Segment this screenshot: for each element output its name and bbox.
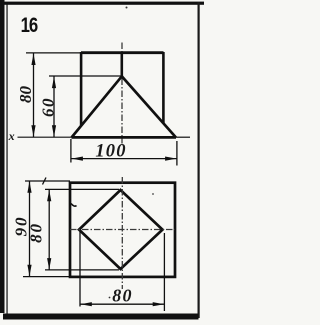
dim line 100 — [71, 158, 177, 160]
dim line 80 bottom — [80, 303, 165, 305]
extension line 80 plan bottom — [45, 269, 119, 271]
base line — [72, 136, 177, 139]
arrow 80 plan bottom — [47, 258, 51, 270]
arrow 90 top — [27, 181, 31, 193]
arrow 80 bottom left — [80, 302, 92, 306]
dim line 60 front — [53, 76, 55, 137]
plan rectangle — [70, 183, 175, 277]
plan horizontal centerline — [70, 229, 175, 231]
prism front middle edge — [121, 53, 124, 78]
dim line 80 front — [33, 53, 35, 137]
page frame bottom bar — [3, 314, 199, 320]
prism front right edge — [162, 52, 165, 124]
page frame left bar — [0, 0, 5, 313]
extension line 80 plan top — [45, 188, 119, 190]
extension line 100 right — [176, 141, 178, 166]
extension line 90 bottom — [23, 276, 70, 278]
arrow 80 front top — [31, 54, 35, 66]
svg-text:100: 100 — [95, 142, 126, 162]
extension line 80 bottom right — [163, 233, 165, 311]
speck dot before 80 — [109, 297, 111, 299]
extension line 100 left — [70, 139, 72, 163]
centerline front (dash-dot) — [121, 43, 123, 144]
arrow 100 right — [165, 157, 177, 161]
page frame inner thin line — [6, 2, 7, 314]
dim line 90 — [29, 181, 31, 277]
arrow 80 bottom right — [153, 302, 165, 306]
page frame top bar — [4, 2, 204, 5]
plan vertical centerline — [121, 177, 123, 289]
svg-text:80: 80 — [16, 86, 35, 104]
arrow 60 top — [52, 77, 56, 89]
arrow 90 bottom — [27, 265, 31, 277]
extension line 80 bottom left — [79, 231, 81, 307]
arrowheads — [27, 54, 176, 307]
dim line 80 plan — [48, 189, 50, 270]
speck dot plan — [152, 193, 154, 195]
svg-text:60: 60 — [39, 97, 58, 117]
x axis line right — [176, 136, 190, 138]
small hook mark on plan left edge — [71, 204, 77, 207]
arrow 100 left — [71, 157, 83, 161]
x axis line left — [18, 136, 72, 138]
plan diamond — [79, 190, 163, 269]
extension line apex (dim 60) — [49, 75, 122, 77]
arrow 60 bottom — [52, 125, 56, 137]
svg-text:80: 80 — [27, 222, 46, 243]
svg-text:16: 16 — [21, 14, 39, 37]
speck dot top — [126, 7, 128, 9]
arrow 80 front bottom — [31, 125, 35, 137]
extension line 90 top — [25, 180, 70, 182]
extension line top edge (dim 80) — [26, 52, 81, 54]
page frame right line — [198, 2, 200, 318]
prism front top edge — [81, 51, 164, 54]
pyramid right slant — [122, 76, 176, 137]
prism front left edge — [80, 52, 83, 126]
svg-text:80: 80 — [112, 286, 132, 306]
tick slash on ext line — [43, 178, 47, 185]
pyramid left slant — [72, 76, 122, 137]
svg-text:x: x — [8, 129, 15, 143]
arrow 80 plan top — [47, 190, 51, 202]
